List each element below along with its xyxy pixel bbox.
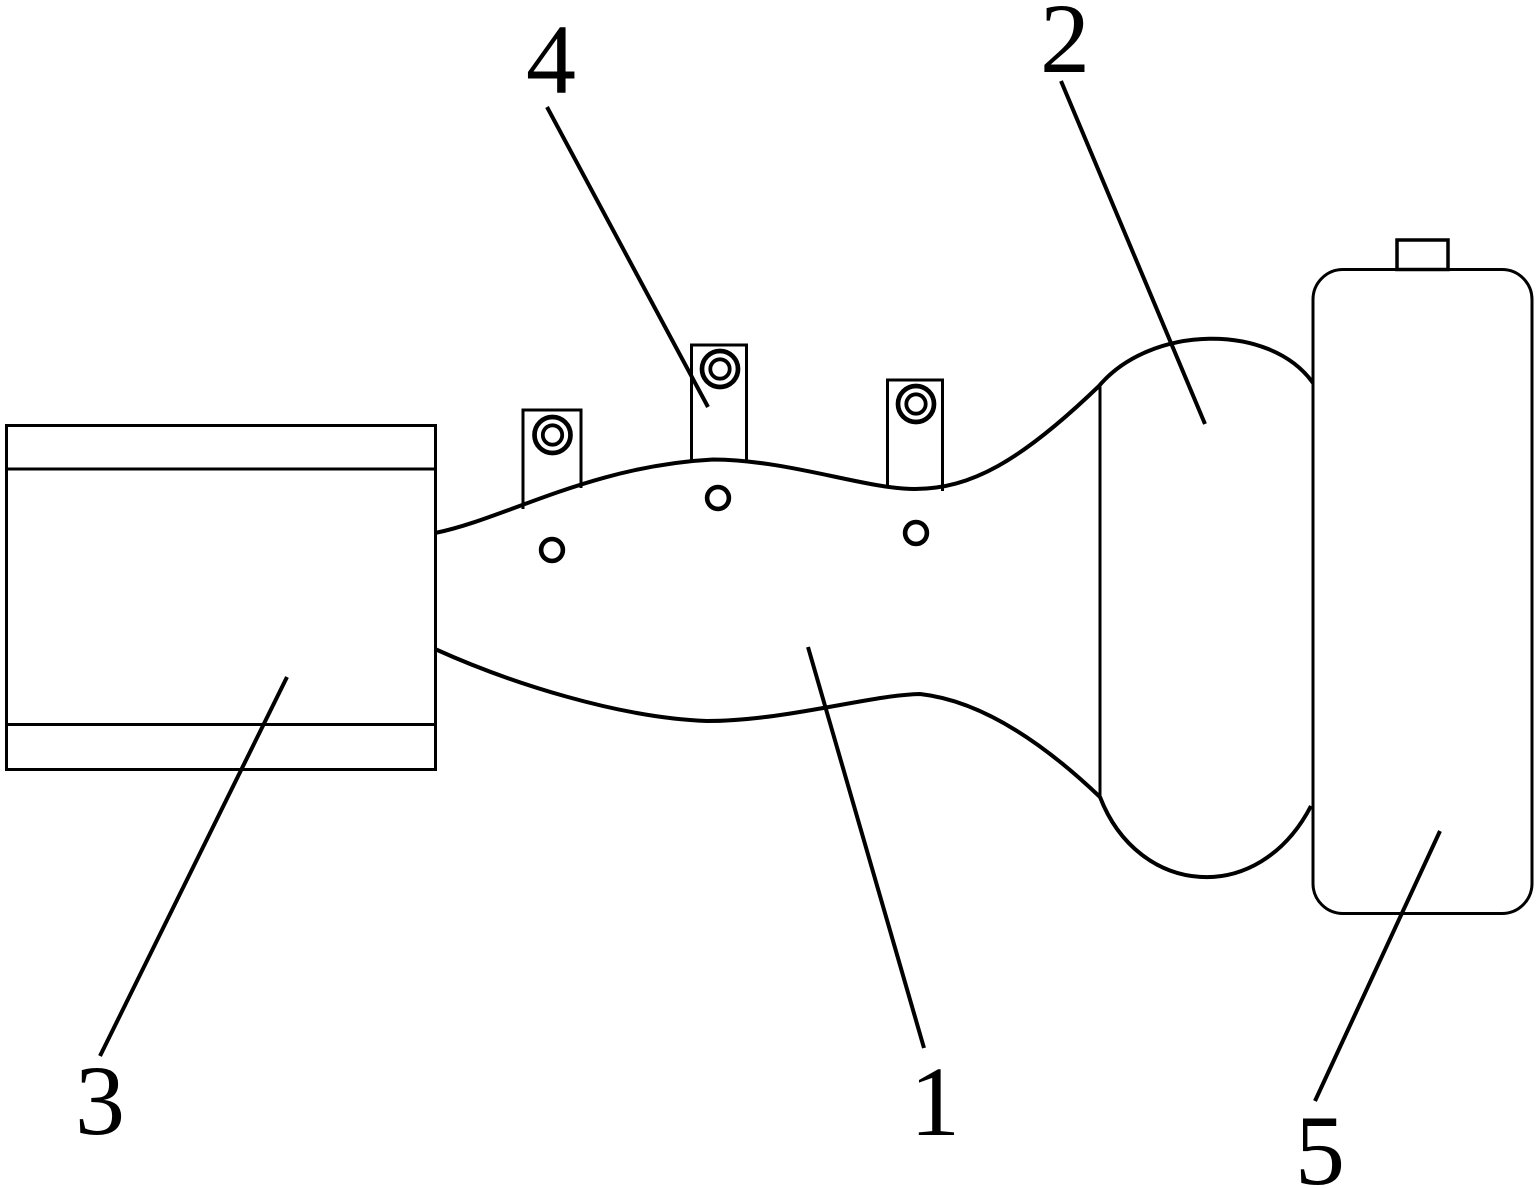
button ring outer (right tab) <box>898 386 934 422</box>
svg-text:1: 1 <box>910 1046 960 1157</box>
button tab 4 (right) <box>888 380 943 491</box>
housing top band line <box>7 468 436 471</box>
neck transition line <box>1099 386 1102 798</box>
probe body 1 bottom outline <box>435 649 1311 877</box>
button ring outer (left tab) <box>535 417 571 453</box>
small hole below left tab <box>541 539 563 561</box>
leader line 3 <box>100 677 287 1056</box>
leader line 5 <box>1315 831 1440 1101</box>
cable boss on head top <box>1397 240 1448 270</box>
svg-text:5: 5 <box>1295 1095 1345 1188</box>
button tab 4 (left) <box>523 410 581 509</box>
connector housing 3 (left rectangle) <box>7 426 436 770</box>
small hole below middle tab <box>707 487 729 509</box>
housing bottom band line <box>7 723 436 726</box>
button ring outer (middle tab) <box>702 351 738 387</box>
svg-text:3: 3 <box>75 1045 125 1156</box>
button ring inner (middle tab) <box>710 359 729 378</box>
leader line 4 <box>547 107 708 407</box>
leader line 2 <box>1061 81 1205 424</box>
button ring inner (left tab) <box>543 425 562 444</box>
leader line 1 <box>808 647 924 1048</box>
button ring inner (right tab) <box>906 394 925 413</box>
small hole below right tab <box>905 522 927 544</box>
button tab 4 (middle) <box>692 345 747 463</box>
transducer head 5 (rounded rectangle) <box>1313 270 1532 914</box>
probe body 1 top outline <box>435 339 1313 533</box>
svg-text:4: 4 <box>526 4 576 115</box>
svg-text:2: 2 <box>1040 0 1090 94</box>
